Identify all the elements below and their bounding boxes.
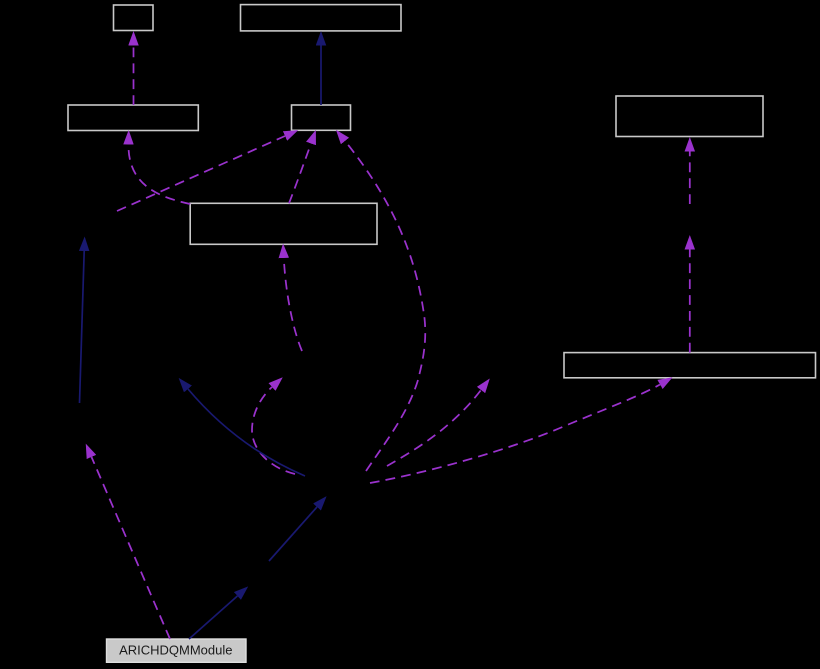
edge E16: ARICHDQMModule -> hidden node n6 (blue): [189, 596, 237, 639]
node box2 (top, wide, invisible label): [241, 5, 402, 31]
edge E11: hub -> hidden node n1 (dashed hook): [252, 387, 295, 474]
node box4 (row2 middle, invisible label): [292, 105, 351, 130]
edge E6: box7 -> hidden node n9 (dashed vertical): [689, 250, 691, 353]
edge E1: box3 -> box1 (dashed): [133, 46, 135, 106]
edge E10: hub -> box7 (long dashed curve): [370, 385, 660, 484]
edge E9: hub -> hidden node n8 (dashed curve): [387, 390, 481, 466]
edge E3: box5 -> box4 middle arrow (dashed): [289, 144, 311, 204]
node box1 (top left, invisible label): [114, 5, 154, 31]
node box5 (middle two-line, invisible label): [190, 203, 377, 244]
svg-text:ARICHDQMModule: ARICHDQMModule: [119, 642, 232, 657]
edge E15: ARICHDQMModule -> hidden node n3 (dashed): [92, 457, 171, 639]
node box3 (row2 left, invisible label): [68, 105, 198, 131]
node ARICHDQMModule: [107, 639, 247, 662]
edge E14: hidden node n3 -> hidden node n2 (blue): [80, 251, 85, 403]
node box6 (right two-line, invisible label): [616, 96, 763, 137]
edge E7: hidden node n9 -> box6 (dashed vertical): [689, 152, 691, 205]
edge E17: hidden node n6 -> hub (blue): [269, 507, 317, 561]
node box7 (right wide, invisible label): [564, 353, 816, 378]
edge E8: hub -> box4 bottom-right (tall dashed curve): [345, 141, 425, 471]
edge E4: hidden node n2 -> box4 bottom-left (dashed diagonal): [117, 136, 285, 211]
edge E13: hub -> hidden node n5 (blue curve): [188, 389, 305, 476]
edge E12: hidden node n1 -> box5 (dashed): [284, 258, 302, 351]
edge E2: box4 -> box2 (blue solid): [320, 46, 322, 106]
edge E5: box5 top-left -> box3 (dashed curve): [128, 145, 190, 205]
